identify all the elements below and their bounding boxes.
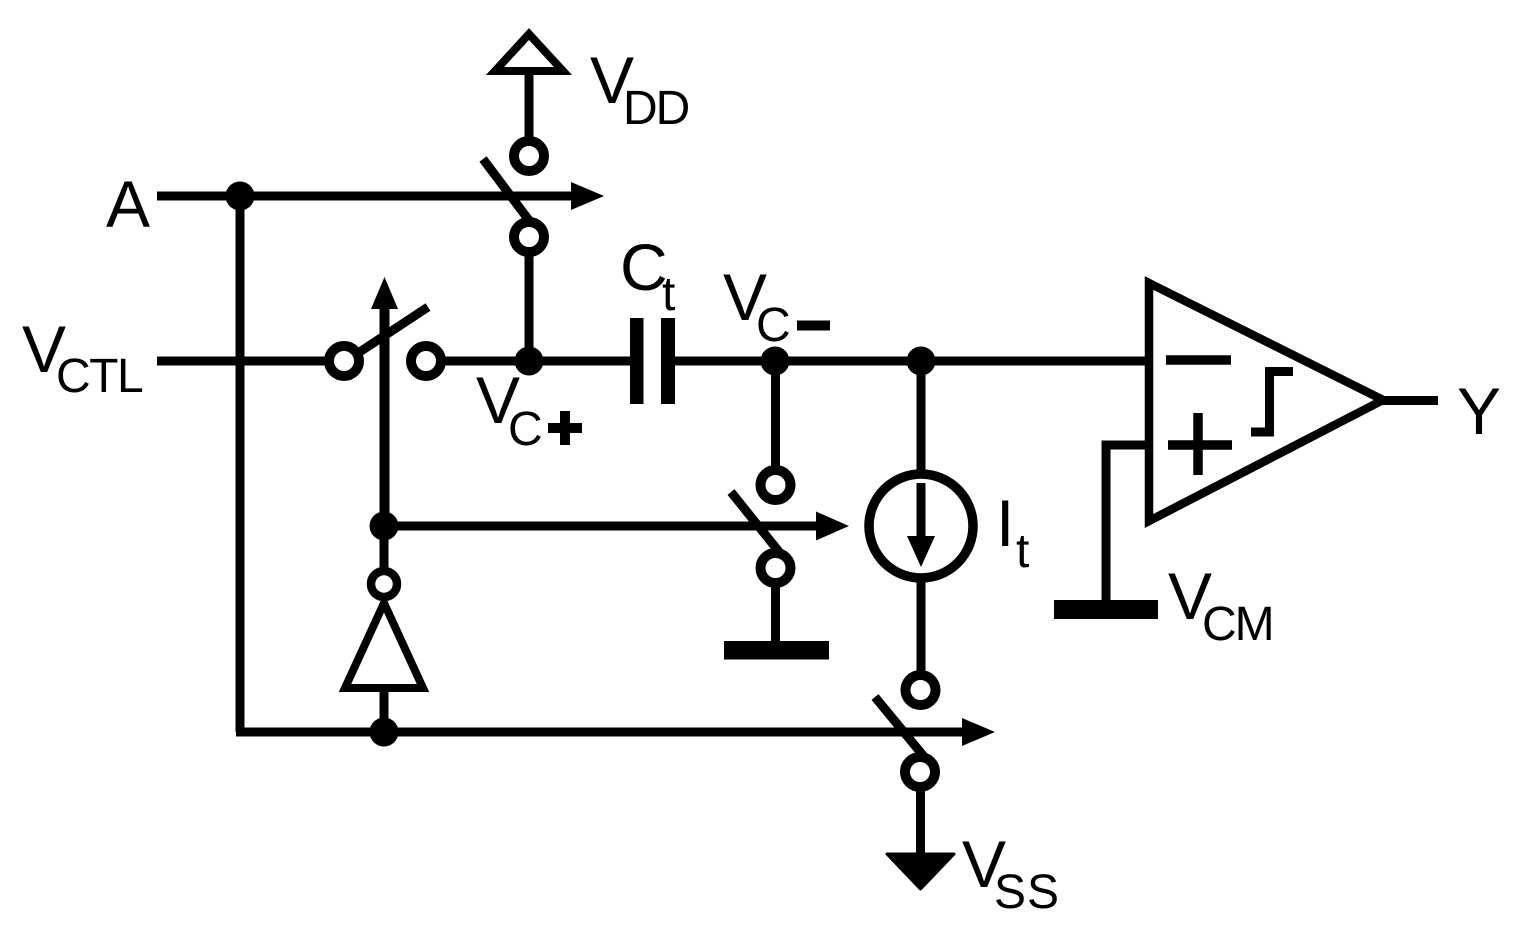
svg-text:C: C xyxy=(620,230,668,304)
svg-text:CTL: CTL xyxy=(56,350,143,403)
switch S3 (It to VSS) xyxy=(875,675,936,787)
switch S2 control arrow from inverter U1 xyxy=(371,277,398,526)
power VDD symbol xyxy=(495,34,689,138)
switch S2g (VC- to ground) xyxy=(731,470,791,583)
wire comparator output xyxy=(1383,396,1438,405)
inverter U1 (input from bottom bus, output bubble up) xyxy=(345,526,423,732)
node VC- label xyxy=(723,260,830,352)
node VC+ junction xyxy=(515,347,544,376)
power VSS symbol xyxy=(887,827,1060,919)
node junction at inverter input (bottom bus) xyxy=(370,718,399,747)
wire node to current source It xyxy=(917,361,926,473)
comparator U2 xyxy=(1149,283,1383,521)
wire VCTL input xyxy=(157,357,330,366)
wire comparator + input to VCM xyxy=(1106,445,1148,601)
svg-text:C: C xyxy=(508,403,543,456)
svg-text:CM: CM xyxy=(1202,598,1273,651)
capacitor Ct xyxy=(620,230,675,404)
node junction at current source It xyxy=(907,347,936,376)
wire current source to switch S3 xyxy=(917,577,926,672)
svg-text:t: t xyxy=(662,268,675,321)
svg-text:SS: SS xyxy=(994,866,1060,919)
node VC+ label xyxy=(476,363,582,456)
node junction at inverter output xyxy=(370,512,399,541)
node VC- junction xyxy=(761,347,790,376)
node VCTL label xyxy=(22,312,143,403)
node A xyxy=(106,167,150,241)
svg-text:t: t xyxy=(1016,525,1029,578)
svg-text:C: C xyxy=(756,299,791,352)
wire VCTL switch to node VC+ xyxy=(440,357,630,366)
node A junction xyxy=(226,182,255,211)
wire switch S1 to node VC+ xyxy=(525,256,534,361)
svg-text:DD: DD xyxy=(623,82,689,135)
wire A input with control arrow into switch S1 xyxy=(157,182,604,210)
wire bottom control bus with arrow into switch S3 xyxy=(236,718,995,746)
ground symbol (below S2g) xyxy=(724,641,829,660)
wire A vertical branch xyxy=(236,196,245,732)
wire VC- to switch S2g xyxy=(771,361,780,467)
switch S2g control arrow wire from inverter U1 xyxy=(384,512,849,541)
wire switch S3 to VSS xyxy=(916,791,925,858)
power VCM symbol xyxy=(1054,559,1273,651)
current source It xyxy=(869,474,1029,578)
svg-text:Y: Y xyxy=(1457,374,1501,448)
switch S1 (VDD to VC+) xyxy=(483,141,544,252)
wire Ct to comparator (node VC-) xyxy=(675,357,1146,366)
svg-text:A: A xyxy=(106,167,150,241)
svg-text:I: I xyxy=(996,486,1014,560)
wire switch S2g to ground xyxy=(771,587,780,648)
switch S2 (VCTL to VC+) xyxy=(329,307,441,376)
node Y label xyxy=(1457,374,1501,448)
